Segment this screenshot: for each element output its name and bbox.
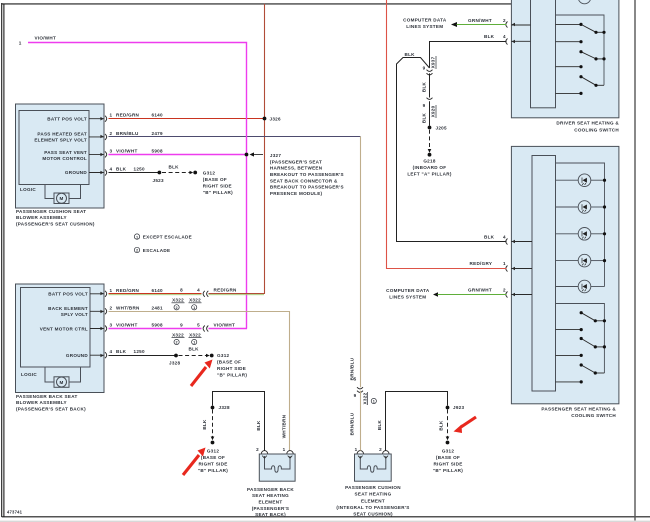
svg-text:(INBOARD OF: (INBOARD OF bbox=[413, 165, 447, 170]
svg-text:BLK: BLK bbox=[405, 52, 416, 57]
A1 pin numbers bbox=[110, 113, 113, 172]
svg-text:X322: X322 bbox=[362, 392, 367, 404]
svg-text:GROUND: GROUND bbox=[65, 170, 87, 175]
svg-text:BREAKOUT TO PASSENGER'S: BREAKOUT TO PASSENGER'S bbox=[270, 172, 344, 177]
heating element HE2 passenger cushion seat bbox=[355, 454, 392, 481]
splice J923 bbox=[446, 406, 450, 410]
svg-text:(PASSENGER'S: (PASSENGER'S bbox=[252, 506, 290, 511]
svg-text:VIO/WHT: VIO/WHT bbox=[116, 323, 138, 328]
svg-text:2: 2 bbox=[136, 249, 138, 253]
svg-text:G312: G312 bbox=[203, 170, 216, 175]
svg-text:X322: X322 bbox=[172, 298, 184, 303]
HE1 component name label bbox=[247, 487, 294, 517]
splice J205 bbox=[428, 126, 432, 130]
S2 indicator lamp rail bbox=[556, 163, 605, 287]
svg-text:G312: G312 bbox=[207, 448, 220, 453]
svg-text:PRESENCE MODULE): PRESENCE MODULE) bbox=[270, 191, 323, 196]
S2 lamp rail junction dots bbox=[603, 179, 606, 263]
HE2 pin connector arcs bbox=[357, 451, 389, 454]
svg-text:J326: J326 bbox=[270, 117, 282, 122]
svg-text:SEAT BACK): SEAT BACK) bbox=[255, 512, 286, 517]
svg-text:G312: G312 bbox=[217, 353, 230, 358]
svg-text:J205: J205 bbox=[436, 125, 448, 130]
splice J328 (element ground) bbox=[211, 406, 215, 410]
svg-text:473741: 473741 bbox=[7, 510, 23, 515]
svg-text:COMPUTER DATA: COMPUTER DATA bbox=[386, 288, 430, 293]
svg-text:9: 9 bbox=[423, 65, 426, 70]
svg-text:LINES SYSTEM: LINES SYSTEM bbox=[406, 24, 443, 29]
svg-text:4: 4 bbox=[110, 167, 113, 172]
ground G312 (HE2) bbox=[446, 437, 450, 441]
svg-text:2: 2 bbox=[110, 305, 113, 310]
svg-text:BLK: BLK bbox=[484, 235, 495, 240]
svg-text:COMPUTER DATA: COMPUTER DATA bbox=[403, 18, 447, 23]
svg-text:BLK: BLK bbox=[421, 81, 426, 92]
svg-text:J328: J328 bbox=[219, 405, 231, 410]
svg-text:X322: X322 bbox=[172, 332, 184, 337]
splice J328 (A2 ground) bbox=[174, 354, 178, 358]
svg-text:PASSENGER CUSHION: PASSENGER CUSHION bbox=[345, 485, 401, 490]
svg-text:5908: 5908 bbox=[152, 323, 164, 328]
svg-text:"B" PILLAR): "B" PILLAR) bbox=[203, 190, 233, 195]
computer data lines reference (driver) bbox=[403, 18, 457, 30]
svg-text:VENT MOTOR CTRL: VENT MOTOR CTRL bbox=[40, 326, 88, 331]
svg-text:2: 2 bbox=[176, 341, 178, 345]
svg-text:J923: J923 bbox=[453, 405, 465, 410]
svg-text:BLK: BLK bbox=[116, 167, 127, 172]
svg-text:(BASE OF: (BASE OF bbox=[217, 360, 241, 365]
svg-text:9: 9 bbox=[423, 103, 426, 108]
connector X937 pin 9 on BLK bbox=[423, 56, 436, 75]
S1 indicator lamp (clipped at top) bbox=[578, 0, 591, 4]
wire BLK 1250 from A1 pin4 bbox=[109, 172, 160, 174]
svg-text:BLK: BLK bbox=[256, 420, 261, 431]
svg-text:HARNESS, BETWEEN: HARNESS, BETWEEN bbox=[270, 166, 323, 171]
svg-text:WHT/BRN: WHT/BRN bbox=[282, 414, 287, 438]
ground G312 (A1) bbox=[190, 171, 194, 175]
wire BLK to J205 bbox=[429, 101, 431, 126]
svg-text:VIO/WHT: VIO/WHT bbox=[35, 35, 57, 40]
svg-text:2: 2 bbox=[256, 447, 259, 452]
svg-text:4: 4 bbox=[197, 288, 200, 293]
svg-text:BLK: BLK bbox=[169, 164, 180, 169]
svg-text:ELEMENT: ELEMENT bbox=[259, 500, 283, 505]
svg-text:COOLING SWITCH: COOLING SWITCH bbox=[571, 413, 616, 418]
svg-text:1250: 1250 bbox=[134, 167, 146, 172]
svg-text:(INTEGRAL TO PASSENGER'S: (INTEGRAL TO PASSENGER'S bbox=[336, 505, 409, 510]
svg-text:1: 1 bbox=[193, 341, 195, 345]
svg-text:4: 4 bbox=[110, 349, 113, 354]
svg-text:2: 2 bbox=[110, 131, 113, 136]
connector X920 pin 9 on BLK bbox=[423, 98, 436, 118]
svg-text:EXCEPT ESCALADE: EXCEPT ESCALADE bbox=[143, 234, 192, 239]
ground G312 (HE1) bbox=[211, 437, 215, 441]
svg-text:DRIVER SEAT HEATING &: DRIVER SEAT HEATING & bbox=[556, 121, 619, 126]
svg-text:ELEMENT: ELEMENT bbox=[361, 498, 385, 503]
wire BRN/BLU from X322 to HE2 pin1 bbox=[360, 391, 362, 451]
wire BLK between connectors bbox=[429, 73, 431, 97]
svg-text:(BASE OF: (BASE OF bbox=[436, 455, 460, 460]
svg-text:PASSENGER BACK SEAT: PASSENGER BACK SEAT bbox=[16, 394, 78, 399]
svg-text:PASSENGER CUSHION SEAT: PASSENGER CUSHION SEAT bbox=[16, 209, 86, 214]
wire BRN/BLU 2479 from A1 pin2 bbox=[109, 136, 361, 138]
svg-text:1: 1 bbox=[110, 288, 113, 293]
S2 switch rail bbox=[556, 304, 605, 374]
svg-text:M: M bbox=[59, 380, 63, 385]
motor M2 of A2 bbox=[45, 367, 81, 387]
svg-text:PASS HEATED SEAT: PASS HEATED SEAT bbox=[37, 132, 87, 137]
S2 indicator lamps L1-L5 bbox=[556, 174, 605, 293]
svg-text:2: 2 bbox=[503, 18, 506, 23]
connector X322 pins 9/5 on VIO/WHT bbox=[172, 322, 209, 344]
svg-text:RIGHT SIDE: RIGHT SIDE bbox=[203, 183, 232, 188]
HE2 component name label bbox=[336, 485, 409, 517]
switch S1 driver seat heating and cooling (box, cut at top) bbox=[511, 0, 619, 118]
svg-text:J328: J328 bbox=[169, 360, 181, 365]
svg-text:2: 2 bbox=[379, 447, 382, 452]
svg-text:1: 1 bbox=[283, 447, 286, 452]
svg-text:PASS SEAT VENT: PASS SEAT VENT bbox=[44, 150, 87, 155]
svg-text:1: 1 bbox=[193, 306, 195, 310]
wire WHT/BRN 2481 from A2 pin2 bbox=[109, 312, 290, 451]
svg-text:2479: 2479 bbox=[152, 131, 164, 136]
svg-text:PASSENGER SEAT HEATING &: PASSENGER SEAT HEATING & bbox=[541, 406, 616, 411]
svg-text:GRN/WHT: GRN/WHT bbox=[468, 288, 492, 293]
svg-text:X322: X322 bbox=[189, 298, 201, 303]
A1 component name label bbox=[16, 209, 95, 227]
wire BRN/BLU vertical run to X322 bbox=[360, 137, 362, 388]
wire RED/GRN from A2 pin1 to X322 bbox=[109, 293, 202, 295]
svg-text:X920: X920 bbox=[431, 105, 436, 117]
J327 callout text bbox=[270, 153, 344, 196]
svg-text:LOGIC: LOGIC bbox=[21, 372, 37, 377]
svg-text:2: 2 bbox=[176, 306, 178, 310]
svg-text:BLOWER ASSEMBLY: BLOWER ASSEMBLY bbox=[16, 215, 67, 220]
svg-text:(PASSENGER'S SEAT BACK): (PASSENGER'S SEAT BACK) bbox=[16, 407, 86, 412]
svg-text:RED/GRN: RED/GRN bbox=[116, 288, 140, 293]
svg-text:SEAT HEATING: SEAT HEATING bbox=[252, 493, 289, 498]
svg-text:BLOWER ASSEMBLY: BLOWER ASSEMBLY bbox=[16, 400, 67, 405]
wire RED/GRN vertical trunk through J326 bbox=[264, 4, 266, 294]
A2 pin stubs and connector arcs bbox=[90, 291, 107, 358]
legend note 2 ESCALADE bbox=[134, 247, 170, 253]
svg-text:G218: G218 bbox=[423, 158, 436, 163]
motor M1 of A1 bbox=[45, 185, 81, 204]
splice J326 bbox=[263, 117, 267, 121]
svg-text:8: 8 bbox=[180, 288, 183, 293]
svg-text:BATT POS VOLT: BATT POS VOLT bbox=[48, 292, 88, 297]
svg-text:VIO/WHT: VIO/WHT bbox=[116, 148, 138, 153]
svg-text:1250: 1250 bbox=[134, 349, 146, 354]
svg-text:BLK: BLK bbox=[189, 347, 200, 352]
svg-text:9: 9 bbox=[180, 322, 183, 327]
svg-text:GROUND: GROUND bbox=[66, 353, 88, 358]
svg-text:"B" PILLAR): "B" PILLAR) bbox=[217, 373, 247, 378]
svg-text:BLK: BLK bbox=[421, 112, 426, 123]
svg-text:SEAT HEATING: SEAT HEATING bbox=[355, 492, 392, 497]
legend note 1 EXCEPT ESCALADE bbox=[134, 234, 192, 239]
A1 pin stubs and connector arcs bbox=[89, 116, 107, 176]
heating element HE1 passenger back seat bbox=[259, 454, 295, 481]
HE1 pin connector arcs bbox=[261, 451, 293, 454]
S2 switch contacts and blades bbox=[556, 313, 605, 382]
svg-text:"B" PILLAR): "B" PILLAR) bbox=[433, 468, 463, 473]
wire labels for A2 pins bbox=[116, 288, 163, 354]
svg-text:BLK: BLK bbox=[116, 349, 127, 354]
svg-text:2: 2 bbox=[503, 288, 506, 293]
svg-text:J327: J327 bbox=[270, 153, 282, 158]
blower assembly A1 passenger cushion seat (outer box) bbox=[16, 104, 105, 208]
svg-text:4: 4 bbox=[503, 235, 506, 240]
A1 pin name labels bbox=[34, 116, 87, 175]
svg-text:J523: J523 bbox=[153, 178, 165, 183]
S2 component name label bbox=[541, 406, 616, 418]
computer data lines reference (passenger) bbox=[386, 288, 438, 300]
svg-text:(BASE OF: (BASE OF bbox=[201, 455, 225, 460]
svg-text:1: 1 bbox=[355, 447, 358, 452]
S1 internal rail bbox=[556, 15, 605, 85]
A2 pin numbers bbox=[110, 288, 113, 354]
node J327 on VIO/WHT trunk bbox=[245, 153, 249, 157]
wire BLK from A2 pin4 bbox=[109, 355, 177, 357]
svg-text:M: M bbox=[59, 196, 63, 201]
svg-text:ELEMENT SPLY VOLT: ELEMENT SPLY VOLT bbox=[34, 138, 87, 143]
svg-text:ESCALADE: ESCALADE bbox=[143, 248, 171, 253]
svg-text:X322: X322 bbox=[189, 332, 201, 337]
svg-text:LINES SYSTEM: LINES SYSTEM bbox=[389, 295, 426, 300]
svg-text:BLK: BLK bbox=[202, 419, 207, 430]
red annotation arrow B (points to G312 of HE1) bbox=[183, 448, 206, 476]
svg-text:LOGIC: LOGIC bbox=[20, 187, 36, 192]
svg-text:BLK: BLK bbox=[484, 34, 495, 39]
svg-text:BLK: BLK bbox=[377, 419, 382, 430]
svg-text:1: 1 bbox=[503, 261, 506, 266]
wire VIO/WHT from A2 pin3 to X322 bbox=[109, 328, 202, 330]
red annotation arrow A (points to G312 of A2) bbox=[191, 360, 213, 387]
svg-text:GRN/WHT: GRN/WHT bbox=[468, 18, 492, 23]
svg-text:RIGHT SIDE: RIGHT SIDE bbox=[198, 461, 227, 466]
S1 component name label bbox=[556, 121, 619, 133]
wire BLK dashed to ground G218 bbox=[429, 130, 431, 150]
svg-text:BLK: BLK bbox=[439, 420, 444, 431]
svg-text:1: 1 bbox=[136, 235, 138, 239]
svg-text:1: 1 bbox=[373, 400, 375, 404]
svg-text:5: 5 bbox=[197, 322, 200, 327]
svg-text:2481: 2481 bbox=[152, 305, 164, 310]
svg-text:VIO/WHT: VIO/WHT bbox=[214, 322, 236, 327]
connector X322 pins 8/4 on RED/GRN bbox=[172, 288, 209, 310]
svg-text:SEAT BACK CONNECTOR &: SEAT BACK CONNECTOR & bbox=[270, 178, 338, 183]
connector X322 pin 5 on BRN/BLU vertical bbox=[354, 376, 377, 405]
S1 switch contacts and blades bbox=[556, 24, 605, 93]
svg-text:LEFT "A" PILLAR): LEFT "A" PILLAR) bbox=[407, 171, 451, 176]
svg-text:G312: G312 bbox=[442, 448, 455, 453]
svg-text:BRN/BLU: BRN/BLU bbox=[116, 131, 139, 136]
svg-text:(BASE OF: (BASE OF bbox=[203, 177, 227, 182]
S2 lamp LED glyphs bbox=[582, 178, 587, 292]
svg-text:WHT/BRN: WHT/BRN bbox=[116, 305, 140, 310]
switch S2 passenger seat heating and cooling (box) bbox=[511, 146, 619, 403]
A2 component name label bbox=[16, 394, 86, 412]
svg-text:SEAT CUSHION): SEAT CUSHION) bbox=[353, 512, 393, 517]
svg-text:RED/GRY: RED/GRY bbox=[470, 261, 493, 266]
svg-text:BRN/BLU: BRN/BLU bbox=[350, 412, 355, 435]
svg-text:"B" PILLAR): "B" PILLAR) bbox=[198, 468, 228, 473]
svg-text:6140: 6140 bbox=[152, 113, 164, 118]
svg-text:PASSENGER BACK: PASSENGER BACK bbox=[247, 487, 294, 492]
svg-text:BATT POS VOLT: BATT POS VOLT bbox=[47, 116, 87, 121]
svg-text:RED/GRN: RED/GRN bbox=[116, 113, 140, 118]
svg-text:4: 4 bbox=[503, 34, 506, 39]
svg-text:1: 1 bbox=[110, 113, 113, 118]
svg-text:BRN/BLU: BRN/BLU bbox=[350, 357, 355, 380]
svg-text:MOTOR CONTROL: MOTOR CONTROL bbox=[42, 156, 87, 161]
wire BLK from HE2 pin2 to J923 splice bbox=[386, 392, 448, 451]
svg-text:3: 3 bbox=[110, 323, 113, 328]
svg-text:X937: X937 bbox=[431, 56, 436, 68]
A2 pin name labels bbox=[40, 292, 89, 358]
wire labels for A1 pins bbox=[116, 113, 163, 172]
svg-text:RED/GRN: RED/GRN bbox=[214, 288, 238, 293]
svg-text:COOLING SWITCH: COOLING SWITCH bbox=[574, 127, 619, 132]
svg-text:BACK ELEMENT: BACK ELEMENT bbox=[48, 306, 88, 311]
blower assembly A2 passenger back seat (outer box) bbox=[16, 284, 105, 393]
svg-text:RIGHT SIDE: RIGHT SIDE bbox=[433, 461, 462, 466]
svg-text:RIGHT SIDE: RIGHT SIDE bbox=[217, 366, 246, 371]
svg-text:(PASSENGER'S SEAT: (PASSENGER'S SEAT bbox=[270, 159, 322, 164]
ground G312 (A2) bbox=[206, 354, 210, 358]
wire VIO/WHT 5908 from A1 pin3 bbox=[109, 154, 247, 156]
svg-text:SPLY VOLT: SPLY VOLT bbox=[61, 312, 88, 317]
svg-text:BREAKOUT TO PASSENGER'S: BREAKOUT TO PASSENGER'S bbox=[270, 185, 344, 190]
wire BLK from HE1 pin2 to J328 splice bbox=[213, 392, 265, 451]
ground G218 bbox=[428, 149, 432, 153]
svg-text:6140: 6140 bbox=[152, 288, 164, 293]
svg-text:5908: 5908 bbox=[152, 148, 164, 153]
splice J523 bbox=[158, 171, 162, 175]
S1 pin stubs and connector arcs bbox=[506, 22, 531, 45]
svg-text:1: 1 bbox=[19, 41, 22, 46]
svg-text:9: 9 bbox=[354, 393, 357, 398]
svg-text:(PASSENGER'S SEAT CUSHION): (PASSENGER'S SEAT CUSHION) bbox=[16, 221, 95, 226]
svg-text:3: 3 bbox=[110, 148, 113, 153]
wire RED/GRN 6140 from A1 pin1 bbox=[109, 118, 265, 120]
S2 pin stubs and connector arcs bbox=[506, 239, 532, 298]
red annotation arrow C (points to G312 of HE2) bbox=[454, 417, 477, 433]
